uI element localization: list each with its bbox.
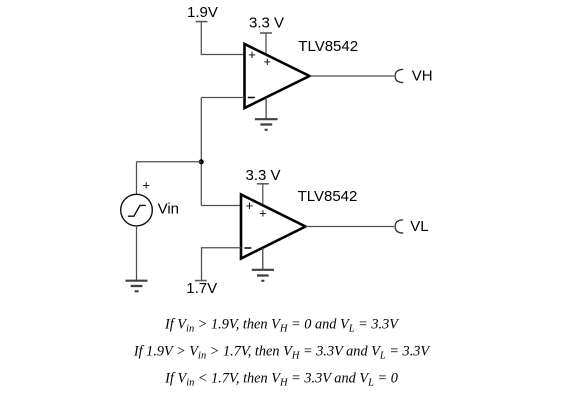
ground (below source V1) [126,281,148,292]
wire vertical bus Vin node [200,98,202,206]
connector VL [395,220,403,233]
ground (below U2) [252,248,274,281]
connector VH [395,69,403,82]
wire 1.9V to noninverting input of U1 [201,22,244,55]
svg-text:If Vin > 1.9V, then VH = 0 and: If Vin > 1.9V, then VH = 0 and VL = 3.3V [164,317,400,335]
terminal 1.9V tick [196,21,208,23]
svg-text:3.3 V: 3.3 V [246,167,281,184]
wire U2 output [306,226,395,228]
terminal 3.3V tick (bottom) [257,183,269,185]
wire U1 output [310,75,395,77]
junction Vin node [199,159,204,164]
svg-text:Vin: Vin [158,201,179,218]
svg-text:+: + [264,54,272,69]
svg-text:3.3 V: 3.3 V [249,15,284,32]
terminal 3.3V tick (top) [260,32,272,34]
wire Vin source to junction [137,161,202,163]
svg-text:TLV8542: TLV8542 [298,38,358,55]
ground (below U1) [255,98,278,130]
wire source bottom [136,226,138,280]
source V1 Vin (circle) [121,194,153,226]
svg-text:VH: VH [412,68,433,85]
svg-text:+: + [246,198,254,213]
wire junction down to U2 noninverting input [201,205,241,207]
svg-text:VL: VL [410,218,428,235]
svg-text:+: + [248,47,256,62]
op-amp U2 TLV8542 (bottom comparator) [241,195,306,259]
svg-text:If 1.9V > Vin > 1.7V, then VH: If 1.9V > Vin > 1.7V, then VH = 3.3V and… [133,344,432,362]
pin - (inverting input U2) [244,247,251,249]
svg-text:1.9V: 1.9V [187,4,218,21]
wire U2 inverting input to 1.7V [202,248,242,280]
op-amp U1 TLV8542 (top comparator) [245,44,310,108]
svg-text:+: + [142,178,150,193]
wire 3.3V supply to U1 V+ pin [265,33,267,59]
source V1 ramp symbol [128,205,146,216]
pin - (inverting input U1) [248,97,255,99]
svg-text:+: + [259,206,267,221]
svg-text:1.7V: 1.7V [186,280,217,297]
wire source top [136,162,138,195]
svg-text:If Vin < 1.7V, then VH = 3.3V: If Vin < 1.7V, then VH = 3.3V and VL = 0 [164,371,398,389]
wire U1 inverting input to bus [201,97,244,99]
wire 3.3V supply to U2 V+ pin [262,184,264,209]
terminal 1.7V tick [195,280,207,282]
svg-text:TLV8542: TLV8542 [298,188,358,205]
